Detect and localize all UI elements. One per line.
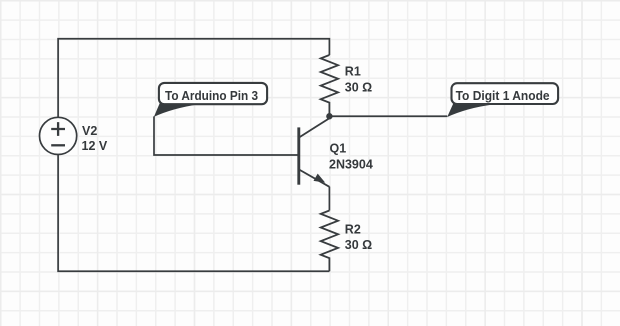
svg-text:Q1: Q1 xyxy=(330,142,347,156)
svg-text:12 V: 12 V xyxy=(82,139,108,153)
svg-text:To Digit 1 Anode: To Digit 1 Anode xyxy=(456,88,550,103)
svg-text:V2: V2 xyxy=(82,124,97,138)
svg-text:R1: R1 xyxy=(345,65,361,79)
svg-text:30 Ω: 30 Ω xyxy=(345,238,372,252)
svg-text:30 Ω: 30 Ω xyxy=(345,80,372,94)
svg-text:2N3904: 2N3904 xyxy=(329,157,373,171)
svg-text:To Arduino Pin 3: To Arduino Pin 3 xyxy=(165,88,258,103)
svg-text:R2: R2 xyxy=(345,223,361,237)
